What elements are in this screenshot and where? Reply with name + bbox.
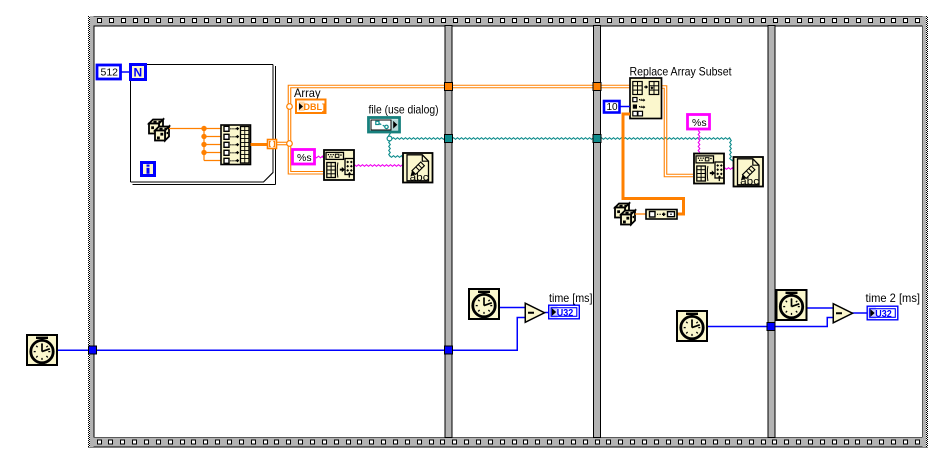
format into string node (frame 3): [694, 154, 724, 184]
svg-text:10: 10: [607, 102, 619, 113]
subtract node (frame 2): [525, 303, 544, 322]
file path control: [369, 118, 400, 133]
magenta string wire: format node to write node frame1: [355, 165, 403, 167]
wire 512 to N: [121, 71, 130, 73]
orange 2D-array double wire: loop tunnel to junction, up and across to RAS, down to format nodes: [277, 85, 694, 177]
svg-text:%s: %s: [297, 152, 312, 164]
blue wire: clock3 through separator3 to subtract4: [708, 318, 833, 327]
tick count clock (frame 3): [677, 311, 707, 341]
blue wire: clock4 to subtract4: [808, 307, 833, 309]
magenta string wire: format node to write node frame3: [725, 168, 734, 170]
teal tunnel separator1 (path): [445, 135, 453, 143]
string constant %s (frame 3): [688, 115, 710, 130]
blue tunnel separator1: [445, 346, 453, 354]
frame separator bar 2: [594, 26, 601, 438]
frame 1: for loop border: [130, 64, 275, 184]
string constant %s (frame 1): [293, 150, 315, 165]
subtract node (frame 4): [833, 304, 852, 323]
orange wire dice to array node (frame 3): [635, 213, 646, 215]
svg-text:time 2 [ms]: time 2 [ms]: [866, 291, 921, 305]
write to text file node (frame 1): [403, 153, 433, 183]
tick count clock (outside, left): [27, 335, 57, 365]
teal tunnel separator2: [593, 135, 601, 143]
flat sequence structure: right border: [922, 16, 928, 447]
blue wire 10 to RAS: [620, 106, 630, 108]
small build array node (frame 3): [646, 210, 677, 220]
1D array wire: small node loop to RAS new element input: [623, 114, 684, 214]
svg-text:N: N: [134, 66, 143, 80]
svg-text:DBL]: DBL]: [304, 102, 326, 112]
format into string node (frame 1): [324, 150, 354, 180]
blue wire: subtract2 to U32: [545, 312, 550, 314]
orange tunnel separator2: [593, 83, 601, 91]
frame separator bar 3: [768, 26, 775, 438]
auto-indexing loop tunnel: [268, 140, 277, 149]
teal path wire: control down to junction, across frames to frame3 write node: [389, 132, 734, 161]
flat sequence structure: top film band: [88, 16, 928, 26]
orange junction circle at Array indicator: [287, 104, 293, 110]
constant 10: [604, 101, 620, 113]
tick count clock (frame 2): [469, 289, 499, 319]
constant 512: [97, 65, 121, 79]
random number dice (frame 1): [149, 120, 169, 141]
orange tunnel separator1 (2D array): [445, 83, 453, 91]
svg-text:time [ms]: time [ms]: [549, 291, 593, 305]
flat sequence structure: left border: [88, 16, 94, 447]
blue tunnel left border: [89, 346, 97, 354]
teal junction circle below path control: [387, 136, 392, 141]
random number dice (frame 3): [615, 204, 635, 225]
frame separator bar 1: [445, 26, 452, 438]
build array node: [221, 125, 251, 165]
loop count terminal N: [131, 65, 146, 80]
U32 indicator (frame 4): [867, 306, 898, 320]
magenta string wire: %s to format node frame1: [315, 156, 324, 158]
blue wire: subtract4 to U32 2: [852, 312, 867, 314]
blue tunnel separator3: [767, 323, 775, 331]
orange junction circle at tunnel branch: [287, 141, 293, 147]
long blue wire: tick count chain frame1-frame2: [58, 318, 525, 351]
tick count clock (frame 4): [777, 290, 807, 320]
svg-text:Replace Array Subset: Replace Array Subset: [630, 65, 733, 79]
Replace Array Subset node: [630, 78, 662, 119]
svg-text:file (use dialog): file (use dialog): [369, 103, 439, 117]
svg-text:Array: Array: [294, 86, 321, 100]
svg-text:%s: %s: [692, 117, 707, 129]
svg-text:512: 512: [101, 67, 119, 79]
write to text file node (frame 3): [734, 157, 764, 187]
magenta string wire: %s down to format node frame3: [698, 131, 700, 153]
blue wire: clock2 to subtract2: [500, 307, 525, 309]
1D array wire: build array to loop tunnel: [251, 143, 269, 146]
Array indicator terminal [DBL]: [296, 100, 326, 114]
U32 indicator (frame 2): [549, 305, 580, 319]
orange wire dice to build array with junction dots: [169, 129, 221, 161]
iteration terminal i: [142, 163, 155, 176]
flat sequence structure: bottom film band: [88, 437, 928, 447]
